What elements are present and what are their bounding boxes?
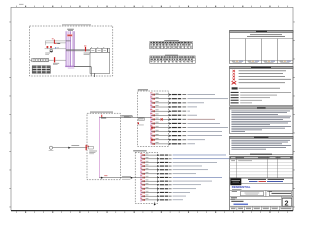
panel LP2 bus (magenta) <box>140 154 142 202</box>
specifications box <box>230 136 293 155</box>
title block divider 2 <box>230 190 293 192</box>
LP2 circuit 10: breaker, wire, load label <box>140 187 196 190</box>
feeder schedule table 1 <box>150 40 193 49</box>
LP1 circuit 6: breaker, wire, load label <box>150 113 197 116</box>
metering line <box>45 48 66 50</box>
meter main disconnect (red) <box>53 57 66 65</box>
legend symbol 5 <box>232 81 285 84</box>
border ruler ticks left <box>9 22 11 208</box>
house panel enclosure (dashed) <box>87 113 120 180</box>
feeder schedule table 2 <box>150 55 195 64</box>
legend symbol 2 <box>233 73 283 75</box>
bus riser highlight tag (red) <box>67 34 72 36</box>
checked-by cell <box>266 191 292 197</box>
house panel main breaker <box>99 115 107 119</box>
sheet corner note <box>19 3 24 6</box>
transformer pad (hatched) <box>32 66 50 73</box>
svg-text:RESIDENTIAL: RESIDENTIAL <box>232 185 251 189</box>
project number cell <box>231 201 248 205</box>
LP1 spare marker X3 <box>151 139 153 141</box>
symbol legend box <box>230 66 293 105</box>
LP1 circuit 9: breaker, wire, load label <box>150 126 228 129</box>
LP1 circuit 8: breaker, wire, load label <box>150 121 220 124</box>
border ruler ticks bottom <box>16 211 288 212</box>
legend abbreviation 1 <box>231 92 291 93</box>
LP2 circuit 8: breaker, wire, load label <box>140 179 212 182</box>
main breaker (red) <box>84 46 91 55</box>
main switchboard outline <box>90 52 110 73</box>
drawn-by cell <box>232 191 264 196</box>
utility source node <box>49 146 54 151</box>
switchboard ground stub <box>94 73 96 77</box>
service lateral arrow + label <box>68 145 79 149</box>
scale cell <box>231 197 237 199</box>
title block divider 3 <box>230 196 293 198</box>
LP2 circuit 4: breaker, wire, load label <box>140 164 202 167</box>
LP1 circuit 2: breaker, wire, load label <box>150 97 228 100</box>
LP1 circuit 13: breaker, wire, load label <box>150 142 195 145</box>
LP1 circuit 11: breaker, wire, load label <box>150 134 222 137</box>
LP1 circuit 10: breaker, wire, load label <box>150 130 222 133</box>
panel LP2 enclosure (dashed) <box>135 152 157 203</box>
house panel bus (magenta) <box>98 117 100 178</box>
LP2 circuit 5: breaker, wire, load label <box>140 168 208 171</box>
project type text RESIDENTIAL <box>232 185 251 190</box>
panel LP1 title <box>138 88 148 91</box>
LP2 circuit 1: breaker, wire, load label <box>140 153 226 156</box>
LP2 circuit 12: breaker, wire, load label <box>140 194 186 197</box>
title block outline <box>230 178 293 211</box>
LP2 circuit 7: breaker, wire, load label <box>140 176 222 179</box>
title block footer cells <box>231 206 292 210</box>
bus riser tag <box>67 29 74 31</box>
panel LP1 enclosure (dashed) <box>138 91 169 147</box>
drawing frame border <box>11 7 293 210</box>
panel LP1 sub-meter (red) <box>138 122 144 125</box>
feeder to panel LP1 <box>107 115 138 117</box>
LP1 circuit 12: breaker, wire, load label <box>150 138 205 141</box>
LP2 circuit 6: breaker, wire, load label <box>140 172 196 175</box>
legend abbreviation 2 <box>231 95 277 96</box>
service feeder top (double line) <box>45 41 70 45</box>
meter stack <box>30 58 54 62</box>
legend abbreviation 4 <box>231 100 262 101</box>
switchboard section cells <box>90 48 109 53</box>
LP1 spare marker X1 <box>161 118 163 120</box>
utility connection cluster <box>46 43 60 49</box>
LP1 circuit 5: breaker, wire, load label <box>150 109 190 112</box>
junction at panel LP2 feeder <box>131 177 133 179</box>
LP1 circuit 1: breaker, wire, load label <box>150 93 215 96</box>
panel LP2 title <box>133 149 146 152</box>
riser outlet to switchboard <box>74 67 91 76</box>
electrical room title <box>62 23 91 26</box>
vertical bus duct (purple riser) <box>65 31 74 69</box>
general notes box <box>230 107 293 134</box>
title block divider 5 <box>230 205 293 207</box>
legend abbreviation 5 <box>231 102 252 103</box>
LP1 circuit 4: breaker, wire, load label <box>150 105 197 108</box>
main bus (double line) <box>66 50 90 51</box>
LP2 bottom exit arrow <box>154 202 156 206</box>
legend symbol 3 <box>233 76 285 78</box>
company logo <box>230 178 241 185</box>
panel LP1 bus (magenta) <box>150 93 152 144</box>
company name <box>248 179 284 182</box>
legend symbol 4 <box>233 78 291 80</box>
feeder to panel LP2 (bottom) <box>99 175 135 178</box>
service entrance breaker (red) at panel edge <box>86 145 97 154</box>
border ruler ticks top <box>16 6 288 8</box>
fuse F1 on top feeder <box>52 39 55 44</box>
legend flag symbol <box>232 87 280 89</box>
load summary box <box>230 30 293 63</box>
LP1 circuit 7: breaker, wire, load label <box>150 117 215 120</box>
legend abbreviation 3 <box>231 97 270 98</box>
svg-text:2: 2 <box>285 198 289 207</box>
LP2 circuit 3: breaker, wire, load label <box>140 161 217 164</box>
panel LP1 feeder entry label <box>124 116 151 120</box>
panel LP2 feeder entry label <box>122 178 141 180</box>
electrical room enclosure (dashed) <box>30 26 113 76</box>
border ruler ticks right <box>293 22 295 208</box>
LP2 circuit 13: breaker, wire, load label <box>140 198 183 201</box>
revision table <box>230 154 293 178</box>
service lateral wire <box>53 147 87 149</box>
title block divider 1 <box>230 183 293 185</box>
LP2 circuit 2: breaker, wire, load label <box>140 157 231 160</box>
house panel title <box>90 111 113 114</box>
LP2 circuit 9: breaker, wire, load label <box>140 183 201 186</box>
LP2 circuit 11: breaker, wire, load label <box>140 191 190 194</box>
sheet number box <box>281 197 292 208</box>
LP1 circuit 3: breaker, wire, load label <box>150 101 204 104</box>
legend symbol 1 <box>233 70 286 72</box>
LP1 spare marker X2 <box>151 127 153 129</box>
title block divider 4 <box>230 199 282 201</box>
CT cabinet symbol <box>45 50 52 55</box>
